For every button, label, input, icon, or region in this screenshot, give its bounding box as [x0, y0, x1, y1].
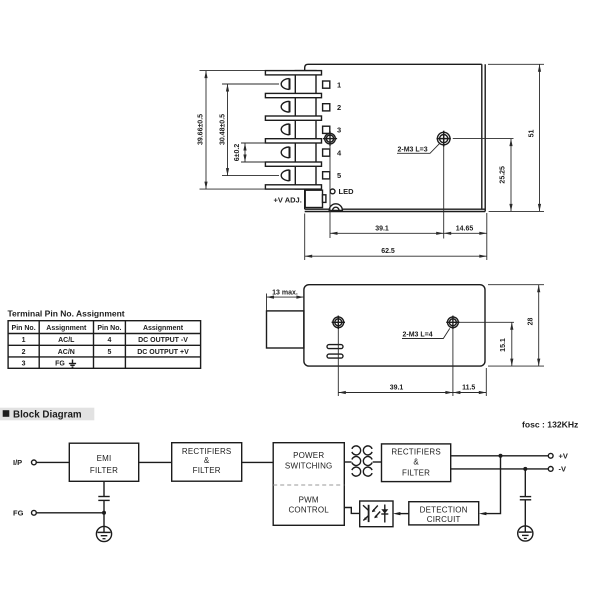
svg-text:4: 4 [337, 148, 342, 157]
svg-text:1: 1 [22, 337, 26, 344]
case foot bump [329, 204, 342, 211]
svg-text:CIRCUIT: CIRCUIT [427, 515, 461, 524]
FG junction [102, 511, 106, 515]
wire detection to optocoupler [393, 512, 409, 515]
svg-text:FILTER: FILTER [90, 466, 118, 475]
dimension 13 max. [267, 289, 304, 311]
svg-text:FG: FG [55, 360, 65, 367]
wire PWM to optocoupler [344, 508, 359, 514]
dimension 25.25 [453, 139, 514, 212]
mounting screw left (top view) [323, 131, 337, 146]
svg-text:RECTIFIERS: RECTIFIERS [391, 448, 441, 457]
case outline top view [305, 64, 486, 211]
svg-text:28: 28 [528, 318, 535, 326]
rectifiers & filter block 1 [172, 443, 242, 482]
dimension 39.1 / 14.65 [330, 213, 487, 260]
wire FG to junction [36, 512, 104, 514]
svg-text:Assignment: Assignment [143, 325, 184, 332]
leader 2-M3 L=4 [402, 328, 450, 338]
terminal fins x6 [265, 71, 321, 190]
wire -V to output capacitor [524, 469, 526, 496]
wire EMI to Y-capacitor [103, 481, 105, 496]
svg-text:FG: FG [13, 509, 24, 518]
svg-text:PWM: PWM [299, 496, 319, 505]
svg-text:DETECTION: DETECTION [420, 506, 468, 515]
svg-text:3: 3 [337, 126, 341, 135]
+V terminal [548, 452, 568, 461]
svg-text:&: & [204, 456, 210, 465]
output capacitor [520, 497, 531, 500]
wire I/P to EMI [36, 461, 69, 463]
svg-text:15.1: 15.1 [500, 338, 507, 352]
svg-text:RECTIFIERS: RECTIFIERS [182, 447, 232, 456]
dimension 39.66±0.5 [198, 71, 266, 190]
svg-text:4: 4 [107, 337, 111, 344]
wire power switching to transformer [344, 461, 351, 463]
svg-text:3: 3 [22, 360, 26, 367]
svg-text:EMI: EMI [97, 454, 112, 463]
terminal screw slot 5 [281, 170, 289, 181]
dimension 6±0.2 [234, 143, 265, 162]
FG input terminal [13, 509, 36, 518]
svg-text:FILTER: FILTER [193, 466, 221, 475]
svg-text:2: 2 [337, 103, 341, 112]
svg-text:13 max.: 13 max. [272, 289, 298, 296]
optocoupler U2 [360, 501, 393, 527]
svg-text:AC/N: AC/N [58, 349, 75, 356]
svg-text:FILTER: FILTER [402, 469, 430, 478]
dimension 39.1 / 11.5 (side) [338, 384, 486, 392]
svg-text:Assignment: Assignment [46, 325, 87, 332]
terminal screw slot 4 [281, 147, 289, 158]
Y-capacitor [98, 497, 109, 501]
transformer T1 [352, 446, 372, 476]
pin numbers 1-5 [337, 80, 342, 180]
svg-text:5: 5 [337, 171, 341, 180]
dimension 51 [488, 64, 544, 211]
svg-text:62.5: 62.5 [381, 248, 395, 255]
-V terminal [548, 465, 566, 474]
terminal connector block side view [267, 311, 304, 348]
dimension 15.1 [459, 322, 514, 366]
terminal screw slot 2 [281, 101, 289, 112]
svg-text:AC/L: AC/L [58, 337, 75, 344]
table title [8, 309, 125, 319]
wire -V output [451, 468, 549, 470]
terminal block body [295, 71, 316, 189]
svg-text:Pin No.: Pin No. [12, 325, 36, 332]
svg-text:2: 2 [22, 349, 26, 356]
pin marker squares 1-5 [323, 81, 330, 179]
screw centreline extensions (side view) [338, 329, 486, 396]
earth ground (FG) [96, 526, 111, 541]
svg-text:-V: -V [559, 465, 567, 474]
wire +V output [451, 455, 549, 457]
svg-text:2-M3 L=3: 2-M3 L=3 [398, 147, 428, 154]
svg-text:25.25: 25.25 [500, 166, 507, 184]
terminal screw slot 3 [281, 124, 289, 135]
+V ADJ potentiometer [274, 190, 326, 207]
mounting screw right (side view) [446, 316, 459, 329]
junction on +V wire [499, 454, 503, 458]
mounting screw left (side view) [332, 316, 345, 329]
earth ground (output side) [518, 526, 533, 541]
svg-text:LED: LED [339, 187, 355, 196]
svg-text:39.66±0.5: 39.66±0.5 [198, 114, 205, 145]
svg-text:2-M3 L=4: 2-M3 L=4 [403, 332, 433, 339]
wire capacitor to output earth [524, 501, 526, 532]
svg-text:DC OUTPUT -V: DC OUTPUT -V [138, 337, 188, 344]
svg-text:DC OUTPUT +V: DC OUTPUT +V [137, 349, 189, 356]
svg-text:1: 1 [337, 80, 341, 89]
dimension 62.5 [305, 214, 487, 261]
wire EMI to rectifiers 1 [139, 461, 172, 463]
svg-text:POWER: POWER [293, 451, 324, 460]
dimension 28 [488, 285, 544, 366]
svg-text:39.1: 39.1 [390, 384, 404, 391]
FG earth glyph in table [69, 360, 76, 368]
svg-text:30.48±0.5: 30.48±0.5 [220, 114, 227, 145]
svg-text:Pin No.: Pin No. [97, 325, 121, 332]
wire transformer to rectifiers 2 [373, 461, 382, 463]
dimension 30.48±0.5 [220, 84, 280, 176]
svg-text:Block Diagram: Block Diagram [13, 409, 82, 420]
leader 2-M3 L=3 [397, 144, 440, 154]
I/P input terminal [13, 458, 36, 467]
svg-text:fosc : 132KHz: fosc : 132KHz [522, 419, 578, 429]
svg-text:14.65: 14.65 [456, 226, 474, 233]
fosc label [522, 419, 578, 429]
feedback wire +V to detection circuit [479, 456, 501, 515]
svg-text:&: & [413, 458, 419, 467]
svg-text:CONTROL: CONTROL [288, 505, 329, 514]
svg-text:5: 5 [107, 349, 111, 356]
screw centreline extensions (top view) [330, 144, 444, 239]
LED indicator [330, 187, 354, 196]
case outline side view [304, 285, 485, 366]
svg-text:6±0.2: 6±0.2 [234, 144, 241, 162]
rectifiers & filter block 2 [382, 444, 451, 482]
junction on -V wire [523, 467, 527, 471]
power switching / PWM control block [273, 443, 344, 526]
mounting screw right (top view) [437, 131, 451, 147]
wire rectifiers 1 to power switching [242, 461, 274, 463]
terminal screw slot 1 [281, 78, 289, 89]
svg-text:11.5: 11.5 [462, 384, 475, 391]
svg-text:51: 51 [529, 130, 536, 138]
svg-text:+V ADJ.: +V ADJ. [274, 195, 302, 204]
vent slots [327, 345, 343, 359]
svg-text:I/P: I/P [13, 458, 22, 467]
section header band [0, 408, 94, 421]
wire Y-capacitor to FG junction [103, 501, 105, 532]
svg-text:39.1: 39.1 [375, 226, 389, 233]
EMI filter block [69, 443, 138, 481]
svg-text:Terminal Pin No. Assignment: Terminal Pin No. Assignment [8, 309, 125, 319]
svg-text:+V: +V [559, 452, 568, 461]
svg-text:SWITCHING: SWITCHING [285, 462, 333, 471]
detection circuit block [409, 502, 479, 525]
pin assignment table [8, 321, 201, 369]
